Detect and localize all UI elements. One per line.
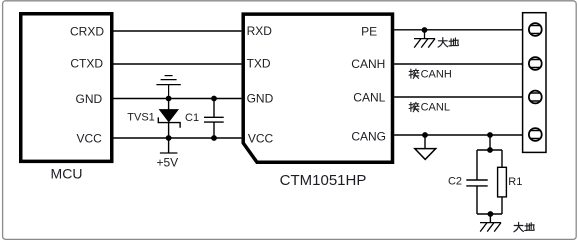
svg-text:VCC: VCC (248, 131, 274, 145)
svg-text:CANL: CANL (353, 91, 385, 105)
svg-text:C2: C2 (448, 175, 462, 187)
svg-text:CTXD: CTXD (70, 57, 103, 71)
svg-text:RXD: RXD (247, 24, 273, 38)
svg-text:C1: C1 (185, 112, 199, 124)
svg-text:GND: GND (247, 92, 274, 106)
svg-text:TXD: TXD (247, 57, 271, 71)
svg-text:+5V: +5V (156, 156, 178, 170)
svg-text:CANH: CANH (351, 57, 385, 71)
svg-text:R1: R1 (508, 176, 522, 188)
svg-text:CANG: CANG (351, 130, 386, 144)
svg-text:MCU: MCU (51, 166, 83, 182)
svg-text:CRXD: CRXD (70, 25, 104, 39)
svg-text:CANH: CANH (421, 68, 452, 80)
svg-text:PE: PE (361, 25, 377, 39)
svg-text:TVS1: TVS1 (127, 112, 155, 124)
svg-text:GND: GND (76, 92, 103, 106)
svg-text:CANL: CANL (421, 102, 450, 114)
svg-text:VCC: VCC (76, 131, 102, 145)
svg-text:CTM1051HP: CTM1051HP (280, 172, 367, 189)
